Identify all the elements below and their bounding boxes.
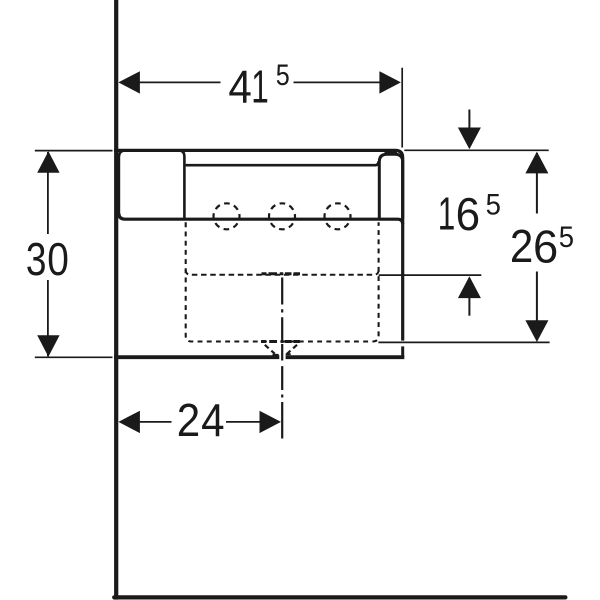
dim 16.5 lower stub xyxy=(468,298,470,316)
dim 41.5 arrow right xyxy=(379,71,401,93)
svg-text:5: 5 xyxy=(276,58,290,91)
dim 26.5 arrow down xyxy=(525,320,548,342)
washbasin right outer edge (lower part) xyxy=(401,346,404,357)
mid reference line right (16.5 bottom) xyxy=(379,274,482,276)
svg-text:2: 2 xyxy=(177,395,200,446)
dim 24 arrow left xyxy=(118,411,139,433)
dashed drawer divider with corners xyxy=(186,270,379,275)
dim 30 arrow up xyxy=(37,151,59,173)
svg-text:0: 0 xyxy=(47,234,69,286)
basin left edge against wall xyxy=(119,150,126,215)
dim 16.5 arrow up (below mid line) xyxy=(458,276,481,298)
washbasin top edge and right outer edge (upper part) xyxy=(114,150,403,340)
dim 26.5 dimension line lower segment xyxy=(536,272,538,322)
washbasin bottom line left segment xyxy=(114,355,279,359)
tap hole dashed circle middle xyxy=(269,203,295,229)
dim 41.5 dimension line right segment xyxy=(294,81,384,83)
basin left inner vertical xyxy=(178,150,184,218)
svg-text:3: 3 xyxy=(26,233,47,285)
svg-text:4: 4 xyxy=(201,395,224,446)
top reference line right xyxy=(404,149,548,151)
svg-text:2: 2 xyxy=(510,221,533,272)
dim 30 dimension line upper segment xyxy=(47,152,49,234)
svg-text:1: 1 xyxy=(251,61,269,112)
drain flange hidden dashes upper xyxy=(262,272,301,275)
drain funnel dashed right slant xyxy=(287,345,297,354)
svg-text:6: 6 xyxy=(533,221,558,273)
centerline dash-dot xyxy=(281,278,283,439)
dim 16.5 upper stub xyxy=(468,110,470,129)
dim 26.5 arrow up xyxy=(525,152,548,174)
dim 30 extension line bottom xyxy=(35,356,113,358)
dim 26.5 dimension line upper segment xyxy=(536,153,538,214)
tap hole dashed circle left xyxy=(214,203,240,229)
drain funnel small horizontal dash right xyxy=(286,353,291,355)
svg-text:6: 6 xyxy=(456,188,480,240)
dashed cabinet outline xyxy=(186,222,379,341)
floor line xyxy=(114,595,565,599)
svg-text:1: 1 xyxy=(438,189,456,240)
dim 41.5 arrow left xyxy=(118,71,139,93)
svg-text:4: 4 xyxy=(228,62,251,113)
bottom reference line right (26.5 bottom) xyxy=(378,341,549,343)
washbasin bottom line right segment xyxy=(286,355,405,359)
dim 24 dimension line right segment xyxy=(226,421,261,423)
basin right inner vertical with arch xyxy=(379,154,402,218)
tap hole dashed circle right xyxy=(325,203,351,229)
dim 24 arrow right xyxy=(260,411,282,433)
arch to top line filler xyxy=(385,152,398,155)
svg-text:5: 5 xyxy=(559,221,574,254)
dim 30 extension line top xyxy=(35,150,113,152)
dim 16.5 arrow down (above top line) xyxy=(458,128,481,150)
basin inner horizontal (back rim) xyxy=(186,161,379,165)
svg-text:5: 5 xyxy=(486,188,501,221)
washbasin rim line (front deck edge) xyxy=(119,214,403,225)
dim 24 dimension line left segment xyxy=(138,421,172,423)
dim 30 arrow down xyxy=(37,335,59,357)
dim 41.5 dimension line left segment xyxy=(137,81,221,83)
dim 30 dimension line lower segment xyxy=(47,280,49,356)
dim 41.5 extension line right xyxy=(401,68,403,148)
wall line xyxy=(114,0,118,600)
drain funnel small horizontal dash left xyxy=(273,354,279,356)
drain funnel dashed left slant xyxy=(265,345,275,354)
drain flange hidden dashes lower xyxy=(261,340,300,343)
